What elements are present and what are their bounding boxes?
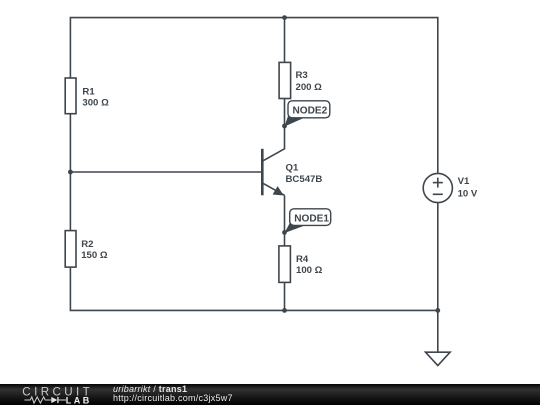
node NODE1 junction dot [282, 230, 287, 235]
svg-text:100 Ω: 100 Ω [296, 265, 323, 276]
svg-text:NODE1: NODE1 [294, 214, 329, 225]
resistor R1 [65, 78, 76, 114]
wire R3 bottom to Q1 collector [263, 99, 285, 161]
wire R4 to bottom rail [284, 282, 286, 310]
node junction dot top of middle branch [282, 15, 287, 20]
transistor Q1 emitter with arrow [263, 183, 285, 195]
wire base from left branch to Q1 base [70, 171, 262, 173]
resistor R3 [279, 62, 291, 98]
svg-text:R3: R3 [296, 70, 308, 81]
svg-text:300 Ω: 300 Ω [82, 98, 109, 109]
wire V1 to bottom rail [437, 203, 439, 311]
voltage source V1 [423, 173, 452, 202]
svg-text:NODE2: NODE2 [293, 106, 328, 117]
node flag NODE2 [285, 101, 330, 127]
svg-text:Q1: Q1 [286, 163, 299, 174]
footer bar [0, 384, 540, 405]
wire bottom rail to ground [437, 310, 439, 352]
svg-text:200 Ω: 200 Ω [296, 82, 323, 93]
wire left branch R2 to bottom rail [70, 267, 437, 310]
svg-text:BC547B: BC547B [286, 174, 323, 185]
CircuitLab logo [0, 384, 110, 405]
wire middle branch top to R3 [284, 18, 286, 63]
svg-text:V1: V1 [458, 176, 470, 187]
node junction dot bottom right [435, 308, 440, 313]
svg-text:R4: R4 [296, 254, 309, 265]
svg-text:R2: R2 [81, 239, 93, 250]
resistor R4 [279, 246, 291, 283]
svg-text:R1: R1 [82, 86, 95, 97]
ground [426, 352, 451, 365]
node flag NODE1 [285, 209, 331, 233]
wire left branch R1 to R2 [69, 114, 71, 231]
transistor Q1 base bar [261, 149, 264, 196]
node junction dot left branch base tap [68, 170, 73, 175]
node NODE2 junction dot [282, 124, 287, 129]
svg-text:150 Ω: 150 Ω [81, 250, 108, 261]
credit text [113, 385, 233, 405]
node junction dot bottom middle branch [282, 308, 287, 313]
wire top rail from left branch to right branch [70, 18, 437, 173]
svg-text:LAB: LAB [66, 395, 92, 405]
resistor R2 [65, 231, 76, 268]
wire Q1 emitter to R4 [284, 195, 286, 246]
svg-text:10 V: 10 V [458, 188, 478, 199]
